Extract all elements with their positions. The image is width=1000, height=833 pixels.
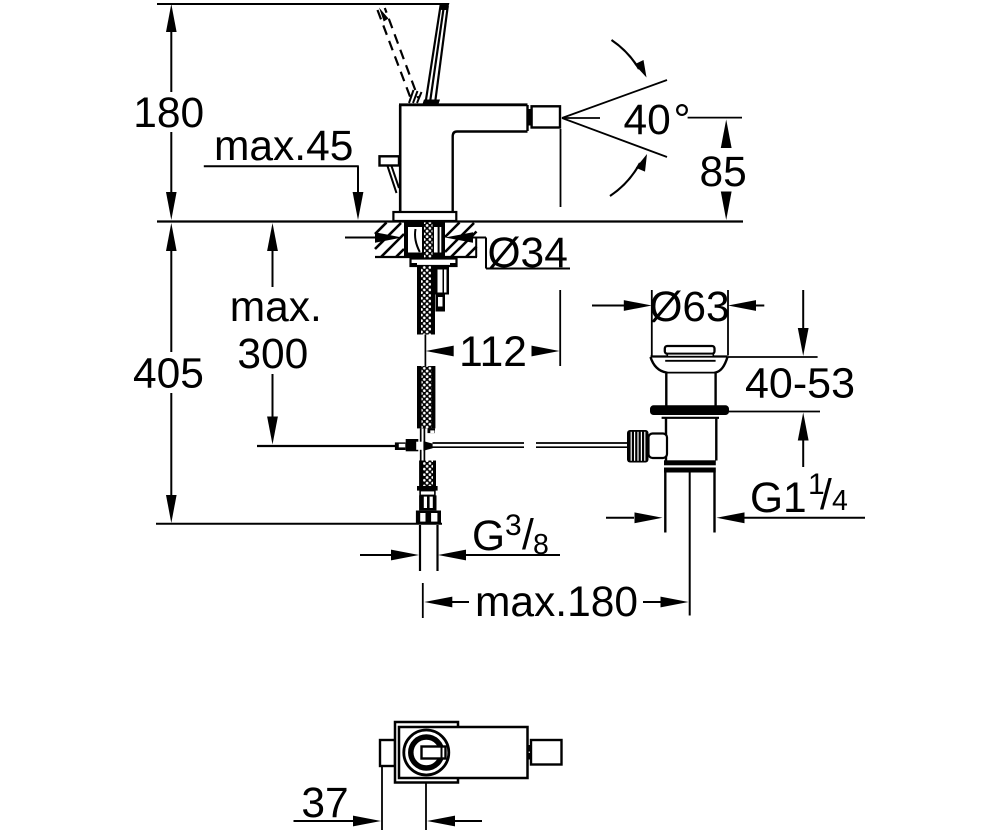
svg-text:3: 3 (505, 509, 522, 542)
svg-text:Ø63: Ø63 (649, 284, 729, 331)
svg-text:max.45: max.45 (214, 123, 353, 170)
svg-text:max.: max. (230, 284, 322, 331)
svg-text:/: / (820, 472, 832, 519)
svg-text:4: 4 (832, 485, 848, 517)
svg-text:37: 37 (301, 780, 348, 827)
svg-text:300: 300 (237, 331, 308, 378)
svg-text:°: ° (674, 97, 691, 144)
svg-text:40-53: 40-53 (745, 361, 855, 408)
svg-text:405: 405 (133, 350, 204, 397)
svg-text:112: 112 (459, 329, 527, 376)
svg-text:max.180: max.180 (475, 579, 638, 626)
svg-text:180: 180 (133, 90, 204, 137)
svg-text:8: 8 (533, 529, 549, 561)
svg-text:G: G (472, 513, 505, 560)
svg-text:G1: G1 (750, 475, 807, 522)
svg-text:Ø34: Ø34 (488, 230, 568, 277)
svg-text:85: 85 (700, 149, 747, 196)
svg-text:40: 40 (624, 97, 671, 144)
